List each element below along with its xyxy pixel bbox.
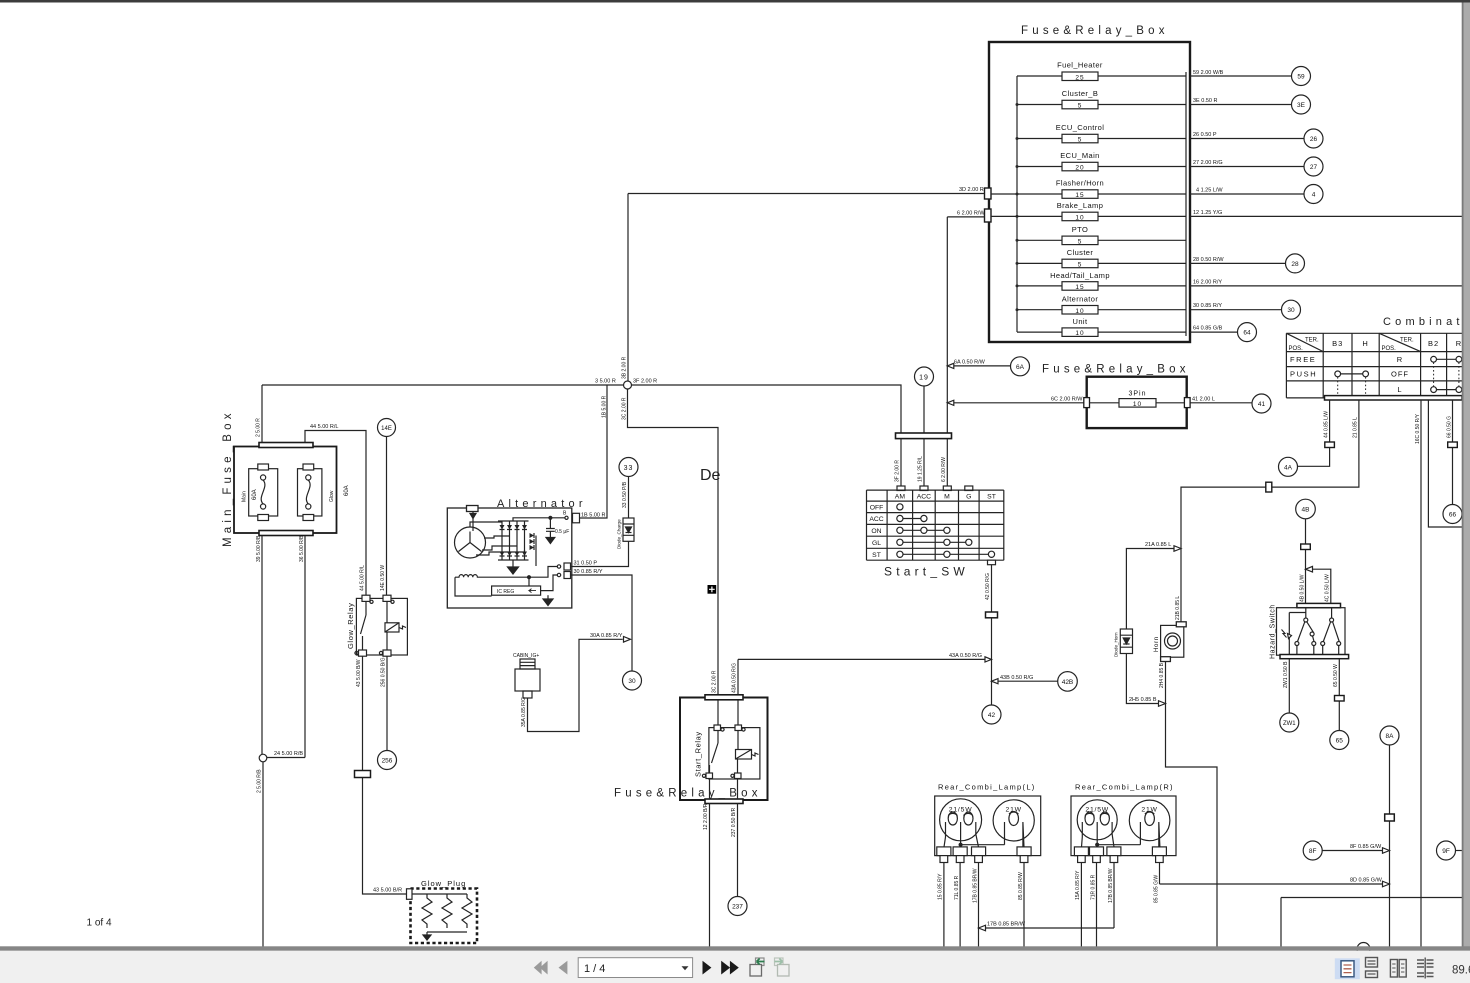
lamp 21W (L) bulb bbox=[993, 800, 1034, 841]
Start_SW table grid bbox=[867, 490, 1004, 560]
svg-text:43A 0.50 R/G: 43A 0.50 R/G bbox=[732, 663, 738, 693]
bridge diodes top row bbox=[500, 525, 528, 530]
svg-text:Glow: Glow bbox=[329, 490, 335, 502]
Start_SW bbox=[738, 433, 1077, 724]
svg-text:14E 0.50 W: 14E 0.50 W bbox=[380, 565, 386, 591]
svg-text:16C 0.50 R/Y: 16C 0.50 R/Y bbox=[1415, 413, 1421, 444]
wire 4B into hazard + 4C branch bbox=[1306, 569, 1331, 603]
svg-text:ECU_Control: ECU_Control bbox=[1056, 123, 1105, 132]
fuse Alternator 10 bbox=[1017, 295, 1186, 315]
relay pin top-right bbox=[737, 700, 739, 728]
right scrollbar bbox=[1462, 3, 1470, 947]
svg-text:Alternator: Alternator bbox=[1062, 295, 1099, 304]
svg-text:36 5.00 R/B: 36 5.00 R/B bbox=[299, 535, 305, 562]
svg-text:ST: ST bbox=[987, 493, 996, 500]
svg-text:41: 41 bbox=[1258, 401, 1266, 408]
connector on wire 21 (horizontal run) bbox=[1266, 482, 1272, 492]
svg-text:4 1.25 L/W: 4 1.25 L/W bbox=[1196, 188, 1223, 194]
connector on wire 8A bbox=[1385, 814, 1395, 821]
connector on wire 44 bbox=[1325, 442, 1335, 448]
svg-text:10: 10 bbox=[1075, 215, 1084, 222]
svg-text:2 5.00 R/B: 2 5.00 R/B bbox=[257, 769, 263, 793]
node 26 bbox=[1304, 129, 1323, 148]
contacts PUSH row (B3-H) bbox=[1341, 373, 1363, 375]
wire 66 0.50 G bbox=[1452, 400, 1454, 505]
svg-text:21 0.85 L: 21 0.85 L bbox=[1353, 417, 1359, 438]
svg-text:Cluster_B: Cluster_B bbox=[1062, 89, 1099, 98]
svg-text:15 0.85 R/Y: 15 0.85 R/Y bbox=[938, 873, 944, 900]
svg-text:3F 2.00 R: 3F 2.00 R bbox=[895, 460, 901, 482]
svg-text:30A 0.85 R/Y: 30A 0.85 R/Y bbox=[590, 633, 623, 639]
svg-text:60A: 60A bbox=[344, 485, 350, 496]
wire 17B 0.85 BR/W (R3) bbox=[1113, 863, 1115, 929]
svg-text:0.5 μF: 0.5 μF bbox=[555, 529, 569, 535]
svg-text:4B 0.50 L/W: 4B 0.50 L/W bbox=[1299, 574, 1305, 602]
fuse Cluster_B 5 bbox=[1017, 89, 1186, 110]
svg-text:G: G bbox=[966, 493, 971, 500]
Horn cluster bbox=[1114, 542, 1218, 947]
bridge diodes bottom row bbox=[500, 552, 528, 557]
wire 237 0.50 B/R bbox=[737, 779, 739, 897]
svg-text:42B: 42B bbox=[1062, 679, 1074, 686]
wire 44 to node 4A bbox=[1297, 448, 1329, 467]
wire 36 5.00 R/B below box right bbox=[304, 536, 306, 758]
node 6A bbox=[1011, 357, 1030, 376]
svg-text:R: R bbox=[1397, 355, 1403, 364]
CABIN_IG+ body bbox=[520, 659, 535, 669]
svg-text:43B 0.50 R/G: 43B 0.50 R/G bbox=[1000, 675, 1033, 681]
wire 3F 2.00 R to Start_SW bbox=[632, 385, 902, 433]
wire 8A down bbox=[1389, 745, 1391, 947]
lamp 21W (R) filament bbox=[1145, 812, 1155, 826]
pin L2 bbox=[953, 847, 967, 856]
brush terminal connector (top-left) bbox=[467, 506, 479, 512]
3Pin left connector bbox=[1084, 398, 1090, 408]
svg-text:85 0.85 G/W: 85 0.85 G/W bbox=[1153, 875, 1159, 903]
svg-text:42: 42 bbox=[988, 712, 996, 719]
connector on wire 4B bbox=[1301, 544, 1311, 550]
contacts OFF row bbox=[897, 504, 903, 510]
svg-text:28 0.50 R/W: 28 0.50 R/W bbox=[1193, 257, 1224, 263]
bottom connector bar bbox=[705, 799, 743, 804]
fuse PTO 5 bbox=[1017, 225, 1186, 245]
svg-text:21B 0.85 L: 21B 0.85 L bbox=[1175, 596, 1181, 620]
node ZW1 bbox=[1280, 713, 1299, 732]
svg-text:3D 2.00 R: 3D 2.00 R bbox=[959, 187, 984, 193]
svg-text:30 0.85 R/Y: 30 0.85 R/Y bbox=[1193, 303, 1222, 309]
svg-text:PUSH: PUSH bbox=[1290, 370, 1317, 379]
wire 44 5.00 R/L (above box to Glow_Relay) bbox=[305, 431, 366, 596]
Glow_Relay enclosure bbox=[356, 598, 407, 655]
svg-text:17B 0.85 BR/W: 17B 0.85 BR/W bbox=[972, 868, 978, 903]
svg-text:5: 5 bbox=[1078, 103, 1083, 110]
Alternator enclosure bbox=[447, 508, 572, 608]
toolbar next-view icon (disabled) bbox=[775, 958, 790, 976]
Glow_Plug left pin bbox=[407, 889, 413, 900]
svg-text:3E 0.50 R: 3E 0.50 R bbox=[1193, 98, 1217, 104]
wire 24 5.00 R/B (jog into junction) bbox=[266, 757, 305, 759]
connector on wire 66 bbox=[1448, 442, 1458, 448]
svg-text:Glow_Relay: Glow_Relay bbox=[346, 603, 355, 649]
svg-text:Brake_Lamp: Brake_Lamp bbox=[1057, 201, 1104, 210]
Rear_Combi_Lamp(R) enclosure bbox=[1071, 796, 1176, 856]
svg-text:35A 0.85 R/G: 35A 0.85 R/G bbox=[521, 697, 527, 727]
wire 15 0.85 R/Y (L1) bbox=[943, 863, 945, 948]
wire 85 0.85 G/W (R4) bbox=[1159, 863, 1161, 885]
pin 31 bbox=[557, 565, 560, 568]
glow plug element 3 bbox=[462, 894, 472, 928]
relay pin top-right bbox=[383, 595, 391, 601]
Combination switch table bbox=[1175, 316, 1470, 947]
wire 6C 2.00 R/W branch to 3Pin box bbox=[952, 402, 1084, 404]
relay coil bbox=[736, 750, 752, 760]
node 4A bbox=[1279, 457, 1298, 476]
wire 15A 0.85 R/Y (R1) bbox=[1080, 863, 1082, 948]
arrow 8F bbox=[1383, 848, 1390, 854]
combination frame edge (right, partial) bbox=[1428, 400, 1462, 527]
fuse Main 60A bbox=[242, 464, 278, 521]
field loop left bbox=[455, 577, 492, 596]
node 9F bbox=[1437, 841, 1456, 860]
svg-text:TER.: TER. bbox=[1305, 338, 1319, 344]
relay switch blade bbox=[361, 601, 367, 650]
svg-text:5: 5 bbox=[1078, 238, 1083, 245]
svg-text:4C 0.50 L/W: 4C 0.50 L/W bbox=[1325, 574, 1331, 602]
connector (3D entry) bbox=[985, 188, 992, 199]
svg-text:256: 256 bbox=[382, 758, 393, 765]
wire 3D vertical drop to junction bbox=[627, 194, 629, 382]
connector on wire 43 bbox=[355, 771, 371, 778]
wire 44 0.85 L/W bbox=[1329, 400, 1331, 442]
contacts ST row bbox=[903, 553, 988, 555]
svg-text:44 5.00 R/L: 44 5.00 R/L bbox=[360, 565, 366, 591]
svg-text:ACC: ACC bbox=[869, 516, 883, 523]
svg-text:59 2.00 W/B: 59 2.00 W/B bbox=[1193, 70, 1224, 76]
shared lamp return wire (R) bbox=[1097, 844, 1140, 846]
svg-text:1B 5.00 R: 1B 5.00 R bbox=[602, 395, 608, 418]
fuse Unit 10 bbox=[1017, 317, 1186, 337]
arrow 17B bbox=[979, 925, 986, 931]
svg-text:12 1.25 Y/G: 12 1.25 Y/G bbox=[1193, 210, 1222, 216]
Horn top connector bbox=[1176, 622, 1186, 627]
svg-text:44 0.85 L/W: 44 0.85 L/W bbox=[1323, 411, 1329, 438]
rectifier bridge columns bbox=[502, 521, 525, 560]
hazard internal feed bbox=[1289, 608, 1306, 655]
wire 30 0.85 R/Y bbox=[1190, 309, 1282, 311]
svg-text:6A: 6A bbox=[1016, 364, 1025, 371]
svg-text:6C 2.00 R/W: 6C 2.00 R/W bbox=[1051, 396, 1083, 402]
connector (6 entry) bbox=[985, 209, 992, 222]
arrow 30A into wire 30 bbox=[624, 637, 631, 643]
svg-text:20: 20 bbox=[1075, 165, 1084, 172]
fuse box internal left bus bbox=[1016, 76, 1018, 332]
contacts FREE row (B2-R) bbox=[1437, 358, 1457, 360]
svg-text:POS.: POS. bbox=[1382, 346, 1397, 352]
hazard switch 2 bbox=[1331, 608, 1333, 618]
svg-text:2H5 0.85 B: 2H5 0.85 B bbox=[1129, 697, 1157, 703]
fuse Fuel_Heater 25 bbox=[1017, 61, 1186, 82]
wire 17B 0.85 BR/W (L3) bbox=[978, 863, 980, 948]
brush wire with arrow bbox=[472, 512, 474, 532]
node 59 bbox=[1292, 67, 1311, 86]
svg-text:Start_Relay: Start_Relay bbox=[694, 731, 703, 777]
IC output to pin 30 bbox=[541, 575, 557, 591]
arrow 8D bbox=[1383, 881, 1390, 887]
svg-text:89.6%: 89.6% bbox=[1452, 965, 1470, 977]
svg-text:43 5.00 B/R: 43 5.00 B/R bbox=[373, 888, 402, 894]
svg-text:TER.: TER. bbox=[1400, 338, 1414, 344]
pin AM bbox=[897, 486, 905, 491]
node 65 bbox=[1330, 731, 1349, 750]
wire stubs from entry connectors to bus bbox=[991, 194, 1017, 216]
lamp 21W (L) filament bbox=[1009, 812, 1019, 826]
svg-text:Main: Main bbox=[242, 491, 248, 502]
node 30 (bottom) bbox=[623, 671, 642, 690]
svg-text:5: 5 bbox=[1078, 262, 1083, 269]
Horn box bbox=[1161, 625, 1184, 657]
lamp 21/5W (R) bulb bbox=[1077, 800, 1117, 840]
junction node (3/3F/3C) bbox=[624, 381, 632, 389]
wire 6 vertical drop to Start_SW bbox=[946, 217, 948, 433]
svg-text:Main_Fuse_Box: Main_Fuse_Box bbox=[222, 409, 234, 547]
svg-text:256 0.50 B/G: 256 0.50 B/G bbox=[381, 657, 387, 687]
connector pin 31 (box edge) bbox=[564, 563, 571, 570]
node 256 bbox=[378, 751, 397, 770]
svg-text:Fuse&Relay_Box: Fuse&Relay_Box bbox=[614, 788, 762, 800]
header diagonal cell 1 bbox=[1286, 333, 1323, 351]
toolbar next-page button bbox=[703, 961, 712, 975]
hazard bottom connector bar bbox=[1280, 655, 1349, 659]
svg-text:4B: 4B bbox=[1302, 507, 1310, 514]
dotted contact drops bbox=[1338, 362, 1459, 396]
view mode icon: continuous bbox=[1366, 958, 1378, 978]
wire 43 5.00 B/R (to Glow_Plug) bbox=[363, 656, 408, 894]
svg-text:2 5.00 R: 2 5.00 R bbox=[256, 418, 262, 437]
contacts GL row bbox=[903, 541, 966, 543]
svg-text:10: 10 bbox=[1133, 401, 1142, 408]
svg-text:L: L bbox=[1397, 385, 1402, 394]
wire 31 0.50 P bbox=[571, 541, 629, 566]
svg-text:25: 25 bbox=[1075, 74, 1084, 81]
Start_Relay inner box bbox=[709, 728, 760, 779]
stator circle bbox=[455, 527, 486, 558]
svg-text:1B 5.00 R: 1B 5.00 R bbox=[581, 513, 605, 519]
bus tap junction dots bbox=[1016, 103, 1019, 311]
fuse output wires and node circles bbox=[1190, 67, 1462, 342]
svg-text:3C 2.00 R: 3C 2.00 R bbox=[622, 397, 628, 420]
lamp 21/5W (L) filaments bbox=[948, 812, 957, 825]
wire 21 0.85 L bbox=[1181, 400, 1359, 622]
wire 4B 0.50 L/W bbox=[1305, 519, 1307, 569]
fuse Head/Tail_Lamp 15 bbox=[1017, 271, 1186, 291]
connector pin 30 (box edge) bbox=[564, 572, 571, 579]
junction dot 21/5W (L) bbox=[959, 843, 962, 846]
svg-text:65: 65 bbox=[1336, 738, 1344, 745]
arrow 6C bbox=[947, 400, 954, 405]
svg-text:ZW1: ZW1 bbox=[1283, 721, 1296, 727]
wire 8F 0.85 G/W bbox=[1322, 850, 1382, 852]
wire 85 0.85 R/W (L4) bbox=[1023, 863, 1025, 948]
svg-text:30 0.85 R/Y: 30 0.85 R/Y bbox=[574, 569, 603, 575]
connector pin B (box edge) bbox=[573, 513, 580, 523]
svg-text:39 5.00 R/B: 39 5.00 R/B bbox=[256, 535, 262, 562]
bridge bottom bus bbox=[498, 559, 529, 561]
toolbar previous-view icon bbox=[750, 958, 765, 976]
Glow_Plug bbox=[407, 879, 478, 943]
junction node (left column) bbox=[259, 754, 267, 762]
Start_SW top connector bar bbox=[896, 433, 952, 439]
glow plug element 1 bbox=[422, 894, 432, 928]
pin ACC bbox=[920, 486, 928, 491]
svg-text:Head/Tail_Lamp: Head/Tail_Lamp bbox=[1050, 271, 1110, 280]
top window border bbox=[0, 0, 1470, 3]
svg-text:30: 30 bbox=[628, 678, 636, 685]
shared lamp return wire (L) bbox=[961, 844, 1005, 846]
node 3E bbox=[1292, 95, 1311, 114]
pin M bbox=[943, 486, 951, 491]
svg-text:OFF: OFF bbox=[870, 504, 884, 511]
svg-text:43A 0.50 R/G: 43A 0.50 R/G bbox=[949, 653, 982, 659]
svg-text:9F: 9F bbox=[1442, 848, 1450, 855]
wire 27 2.00 R/G bbox=[1190, 166, 1304, 168]
Rear_Combi_Lamp(R) bbox=[1071, 783, 1176, 948]
Start_Relay / Fuse&Relay_Box (bottom) bbox=[614, 659, 768, 947]
junction dot 21/5W (R) bbox=[1096, 843, 1099, 846]
wire 71R 0.85 R (R2) bbox=[1096, 863, 1098, 948]
svg-text:Fuse&Relay_Box: Fuse&Relay_Box bbox=[1042, 364, 1190, 376]
svg-text:OFF: OFF bbox=[1391, 370, 1409, 379]
glow plug bottom bus bbox=[427, 931, 467, 933]
fuse ECU_Control 5 bbox=[1017, 123, 1186, 144]
Alternator bbox=[447, 458, 641, 691]
wire 71L 0.85 R (L2) bbox=[959, 863, 961, 948]
bridge top bus bbox=[498, 520, 529, 522]
svg-text:66: 66 bbox=[1449, 512, 1457, 519]
hazard indicator arrow icon bbox=[1282, 630, 1287, 638]
svg-text:Flasher/Horn: Flasher/Horn bbox=[1056, 179, 1104, 188]
wire ZW1 0.50 B bbox=[1288, 659, 1290, 713]
capacitor ground bbox=[546, 538, 555, 544]
bottom connector bar bbox=[259, 531, 313, 536]
svg-text:28: 28 bbox=[1291, 261, 1299, 268]
relay pin top-left bbox=[717, 700, 719, 728]
view mode icon: two pages continuous bbox=[1417, 958, 1434, 979]
pin R1 bbox=[1074, 847, 1088, 856]
svg-text:10: 10 bbox=[1075, 308, 1084, 315]
contacts ACC row bbox=[903, 518, 921, 520]
svg-text:60A: 60A bbox=[252, 489, 258, 500]
wire 64 0.85 G/B bbox=[1190, 331, 1238, 333]
svg-text:237 0.50 B/R: 237 0.50 B/R bbox=[731, 807, 737, 837]
wire 21A 0.85 L branch to Diode_Horn bbox=[1126, 549, 1176, 630]
svg-text:14E: 14E bbox=[381, 426, 392, 432]
wire 3E 0.50 R bbox=[1190, 104, 1292, 106]
fuse ECU_Main 20 bbox=[1017, 151, 1186, 172]
svg-text:6 2.00 R/W: 6 2.00 R/W bbox=[957, 211, 985, 217]
svg-text:Glow_Plug: Glow_Plug bbox=[421, 879, 466, 888]
pin R2 bbox=[1090, 847, 1104, 856]
top connector bar bbox=[705, 695, 743, 700]
trio diodes (right) bbox=[530, 533, 535, 550]
glow plug element 2 bbox=[442, 894, 452, 928]
wire 19 drop to pin ACC bbox=[923, 439, 925, 486]
svg-text:10: 10 bbox=[1075, 330, 1084, 337]
svg-text:64 0.85 G/B: 64 0.85 G/B bbox=[1193, 326, 1223, 332]
svg-text:6 2.00 R/W: 6 2.00 R/W bbox=[941, 457, 947, 482]
svg-text:16 2.00 R/Y: 16 2.00 R/Y bbox=[1193, 279, 1222, 285]
stator to bridge stepped wires bbox=[470, 522, 525, 555]
svg-text:3 5.00 R: 3 5.00 R bbox=[595, 379, 616, 385]
svg-text:12 2.00 B/R: 12 2.00 B/R bbox=[703, 803, 709, 830]
svg-text:237: 237 bbox=[732, 904, 743, 911]
fuse Glow 60A bbox=[298, 464, 351, 521]
svg-text:8F 0.85 G/W: 8F 0.85 G/W bbox=[1350, 844, 1382, 850]
3Pin internal wires bbox=[1090, 402, 1185, 404]
wire 2 5.00 R (above box, from y=385 bus) bbox=[261, 385, 263, 443]
wire 41 2.00 L bbox=[1190, 402, 1252, 404]
Hazard_Switch enclosure bbox=[1277, 608, 1346, 656]
node 64 bbox=[1238, 323, 1257, 342]
junction dot on B wire bbox=[549, 516, 552, 519]
Rear_Combi_Lamp(L) enclosure bbox=[935, 796, 1041, 856]
wire 33 0.50 P/B bbox=[628, 477, 630, 519]
wire B terminal bbox=[513, 518, 565, 521]
svg-text:Fuel_Heater: Fuel_Heater bbox=[1057, 61, 1103, 70]
top connector bar bbox=[259, 443, 313, 448]
3Pin right connector bbox=[1184, 398, 1190, 408]
8A ground chain bbox=[1160, 726, 1463, 956]
rotor field coil bbox=[455, 575, 529, 578]
svg-text:33: 33 bbox=[624, 465, 634, 472]
wire 2H4 0.85 B (horn ground run) bbox=[1166, 662, 1218, 948]
node 8F bbox=[1303, 841, 1322, 860]
svg-text:6A 0.50 R/W: 6A 0.50 R/W bbox=[954, 360, 986, 366]
arrow 21A bbox=[1174, 546, 1181, 552]
svg-text:17B 0.85 BR/W: 17B 0.85 BR/W bbox=[987, 922, 1026, 928]
toolbar prev-page button (disabled) bbox=[559, 961, 568, 975]
svg-text:Unit: Unit bbox=[1073, 317, 1088, 326]
svg-text:B2: B2 bbox=[1428, 339, 1439, 348]
svg-text:CABIN_IG+: CABIN_IG+ bbox=[513, 653, 539, 659]
svg-text:AM: AM bbox=[895, 493, 906, 500]
14E chain and Glow_Relay bbox=[346, 419, 407, 895]
wire 8D 0.85 G/W bbox=[1160, 883, 1383, 885]
svg-text:8D 0.85 G/W: 8D 0.85 G/W bbox=[1350, 878, 1383, 884]
Diode_Charge bbox=[617, 518, 635, 549]
wire 3D 2.00 R horizontal run bbox=[628, 193, 985, 195]
pin B bbox=[565, 516, 568, 519]
node 27 bbox=[1304, 157, 1323, 176]
svg-text:4: 4 bbox=[1312, 192, 1316, 199]
glow plug ground bbox=[426, 932, 428, 935]
toolbar last-page button bbox=[721, 961, 730, 975]
pin R4 bbox=[1152, 847, 1166, 856]
header diagonal cell 2 bbox=[1379, 333, 1420, 351]
relay coil bbox=[385, 623, 399, 632]
svg-text:85 0.85 R/W: 85 0.85 R/W bbox=[1018, 872, 1024, 900]
svg-text:FREE: FREE bbox=[1290, 355, 1316, 364]
svg-text:8F: 8F bbox=[1309, 848, 1317, 855]
arrow 2H5 bbox=[1159, 701, 1166, 707]
svg-text:GL: GL bbox=[872, 540, 881, 547]
Fuse&Relay_Box (3Pin) bbox=[1042, 364, 1271, 429]
svg-text:71R 0.85 R: 71R 0.85 R bbox=[1090, 874, 1096, 900]
Horn bottom connector bbox=[1161, 657, 1171, 662]
svg-text:ZW1 0.50 B: ZW1 0.50 B bbox=[1283, 661, 1289, 688]
wire 39 5.00 R/B below box left bbox=[261, 536, 263, 755]
svg-text:Fuse&Relay_Box: Fuse&Relay_Box bbox=[1021, 25, 1169, 37]
node 30 (top) bbox=[1282, 300, 1301, 319]
